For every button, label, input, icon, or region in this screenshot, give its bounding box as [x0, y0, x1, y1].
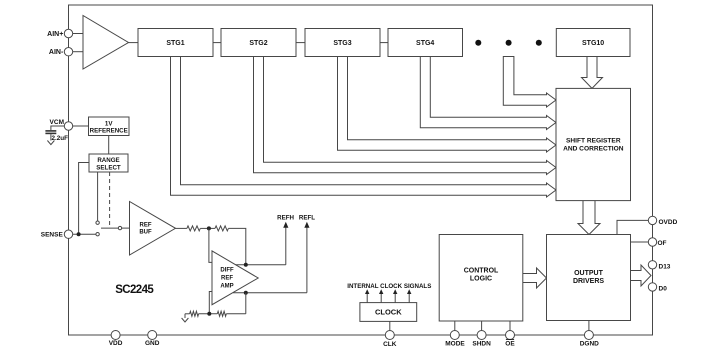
- stage STG2: [221, 29, 296, 57]
- svg-text:DIFF: DIFF: [220, 268, 234, 274]
- wire AIN+ stub: [73, 33, 83, 35]
- svg-text:REFH: REFH: [277, 215, 294, 222]
- wire VCM to capacitor: [51, 126, 64, 130]
- svg-text:DGND: DGND: [580, 340, 599, 347]
- clock output arrow 2: [379, 289, 383, 302]
- pin OF: [648, 238, 666, 247]
- ground symbol at VCM capacitor: [47, 141, 54, 145]
- resistor R1: [187, 226, 200, 231]
- wire clock to CLK pin: [389, 321, 391, 335]
- wire R2 to feedback corner: [228, 228, 245, 264]
- svg-text:SHDN: SHDN: [472, 340, 491, 347]
- wire SENSE to switch: [73, 233, 96, 235]
- wire capacitor to ground: [50, 134, 52, 140]
- switch contact lower: [96, 233, 99, 236]
- wire lower output to REFL: [233, 292, 307, 294]
- stage STG10: [556, 29, 630, 57]
- bus arrow from STG4 to shift register: [420, 57, 556, 130]
- clock block: [360, 303, 417, 322]
- junction dot at SENSE: [77, 232, 81, 236]
- pin OVDD: [648, 216, 677, 226]
- pin SHDN: [472, 331, 491, 348]
- pin AIN+: [47, 29, 73, 38]
- range select block: [89, 154, 128, 172]
- arrowhead REFL: [304, 222, 309, 228]
- wire STG3 to STG4: [380, 42, 388, 44]
- pin MODE: [445, 331, 465, 348]
- svg-text:MODE: MODE: [445, 340, 465, 347]
- pin VCM: [50, 119, 73, 130]
- wire lower feedback corner: [245, 293, 247, 314]
- svg-text:STG1: STG1: [166, 40, 184, 47]
- op-amp REF BUF: [130, 202, 176, 256]
- wire R3 to R4: [199, 313, 218, 315]
- wire switch to ref buf: [122, 227, 130, 229]
- control logic block: [439, 235, 523, 322]
- resistor R4: [217, 311, 226, 316]
- pin D0: [648, 283, 667, 293]
- svg-text:DRIVERS: DRIVERS: [573, 278, 604, 285]
- arrowhead REFH: [283, 222, 288, 228]
- svg-text:SENSE: SENSE: [41, 231, 64, 238]
- svg-text:OE: OE: [505, 340, 515, 347]
- wire diff amp lower input: [209, 292, 212, 314]
- wire control logic to SHDN pin: [481, 321, 483, 335]
- svg-text:AIN+: AIN+: [47, 31, 63, 38]
- output drivers block: [547, 235, 631, 321]
- wire R1 to R2: [200, 227, 215, 229]
- svg-text:OUTPUT: OUTPUT: [574, 270, 604, 277]
- svg-text:SC2245: SC2245: [115, 284, 154, 296]
- bus arrow from STG1 to shift register: [171, 57, 557, 198]
- svg-text:LOGIC: LOGIC: [470, 276, 492, 283]
- svg-text:OF: OF: [658, 240, 667, 247]
- svg-text:REF: REF: [140, 223, 152, 229]
- junction dot bottom divider: [207, 312, 211, 316]
- clock output arrow 3: [393, 289, 397, 302]
- svg-text:STG10: STG10: [582, 40, 604, 47]
- pin GND: [145, 331, 160, 348]
- hollow arrow control logic to output drivers: [523, 268, 547, 288]
- hollow arrow shift register to output drivers: [578, 201, 600, 235]
- pin D13: [648, 261, 671, 271]
- capacitor C 2.2uF plates: [45, 131, 56, 134]
- svg-text:D13: D13: [659, 264, 671, 271]
- svg-text:AMP: AMP: [220, 283, 233, 289]
- stage STG4: [388, 29, 463, 57]
- wire AIN- stub: [73, 51, 83, 53]
- wire STG1 to STG2: [213, 42, 221, 44]
- svg-text:1V: 1V: [105, 121, 113, 128]
- pin OE with overline: [505, 331, 515, 348]
- pin AIN-: [49, 48, 73, 57]
- wire output drivers to DGND pin: [588, 321, 590, 336]
- wire 1V reference to range select: [108, 136, 110, 155]
- ellipsis dot 2: [506, 40, 512, 46]
- svg-text:CLK: CLK: [383, 341, 397, 348]
- svg-text:AND CORRECTION: AND CORRECTION: [563, 146, 624, 153]
- clock output arrow 1: [365, 289, 369, 302]
- hollow arrow output drivers to data pins: [631, 265, 652, 286]
- pin VDD: [109, 331, 123, 348]
- switch contact upper: [96, 221, 99, 224]
- ground symbol at divider: [182, 314, 189, 322]
- svg-text:2.2uF: 2.2uF: [52, 135, 69, 142]
- svg-text:REFERENCE: REFERENCE: [90, 128, 128, 135]
- 1V reference block: [89, 117, 130, 136]
- svg-text:AIN-: AIN-: [49, 49, 64, 56]
- junction dot lower output: [244, 291, 248, 295]
- svg-text:RANGE: RANGE: [97, 157, 119, 164]
- wire OF to output drivers: [631, 241, 649, 243]
- wire amp to STG1: [129, 42, 139, 44]
- pin CLK: [383, 331, 397, 349]
- junction dot top divider: [207, 226, 211, 230]
- svg-text:INTERNAL CLOCK SIGNALS: INTERNAL CLOCK SIGNALS: [347, 283, 431, 290]
- svg-text:SHIFT REGISTER: SHIFT REGISTER: [566, 138, 621, 145]
- resistor R3: [190, 311, 199, 316]
- switch pole contact: [118, 226, 121, 229]
- svg-text:STG3: STG3: [333, 40, 351, 47]
- wire control logic to MODE pin: [454, 321, 456, 335]
- shift register and correction block: [556, 88, 631, 200]
- svg-text:D0: D0: [659, 286, 668, 293]
- wire STG2 to STG3: [296, 42, 305, 44]
- resistor R2: [215, 226, 228, 231]
- svg-text:STG4: STG4: [416, 40, 434, 47]
- wire range select to switch contact: [97, 172, 99, 221]
- wire REFH riser: [285, 227, 287, 265]
- dashed control wire range select to switch: [109, 172, 111, 227]
- wire ref buf out: [176, 227, 187, 229]
- stage STG3: [305, 29, 380, 57]
- wire OVDD to output drivers: [617, 220, 648, 234]
- wire VCM to 1V reference: [73, 125, 89, 127]
- ellipsis dot 3: [536, 40, 542, 46]
- svg-text:REFL: REFL: [299, 215, 315, 222]
- pin DGND: [580, 331, 599, 348]
- wire diff amp upper input: [209, 228, 212, 262]
- svg-text:CLOCK: CLOCK: [375, 308, 402, 317]
- wire REFL riser: [306, 227, 308, 293]
- wire range select to sense junction: [79, 163, 89, 235]
- svg-text:VCM: VCM: [50, 119, 64, 126]
- wire control logic to OE pin: [509, 321, 511, 335]
- svg-text:SELECT: SELECT: [96, 165, 121, 172]
- svg-text:REF: REF: [221, 275, 233, 281]
- wire ground to R3: [185, 313, 190, 315]
- svg-text:GND: GND: [145, 340, 160, 347]
- wire upper output to REFH: [235, 264, 285, 266]
- svg-text:CONTROL: CONTROL: [464, 268, 499, 275]
- bus arrow from STG2 to shift register: [254, 57, 557, 175]
- op-amp input buffer: [83, 16, 129, 70]
- outer border: [69, 5, 653, 335]
- svg-text:STG2: STG2: [249, 40, 267, 47]
- wire R4 to corner: [226, 313, 246, 315]
- clock output arrow 4: [407, 289, 411, 302]
- svg-text:BUF: BUF: [139, 230, 152, 236]
- ellipsis dot 1: [475, 40, 481, 46]
- pin SENSE: [41, 230, 73, 238]
- op-amp DIFF REF AMP: [212, 251, 258, 305]
- junction dot upper output: [244, 263, 248, 267]
- switch arm wire: [101, 227, 118, 229]
- svg-text:VDD: VDD: [109, 340, 123, 347]
- bus arrow from ellipsis stages to shift register: [503, 57, 556, 108]
- stage STG1: [138, 29, 213, 57]
- svg-text:OVDD: OVDD: [659, 219, 678, 226]
- bus arrow from STG3 to shift register: [338, 57, 557, 153]
- hollow arrow STG10 to shift register: [582, 57, 603, 89]
